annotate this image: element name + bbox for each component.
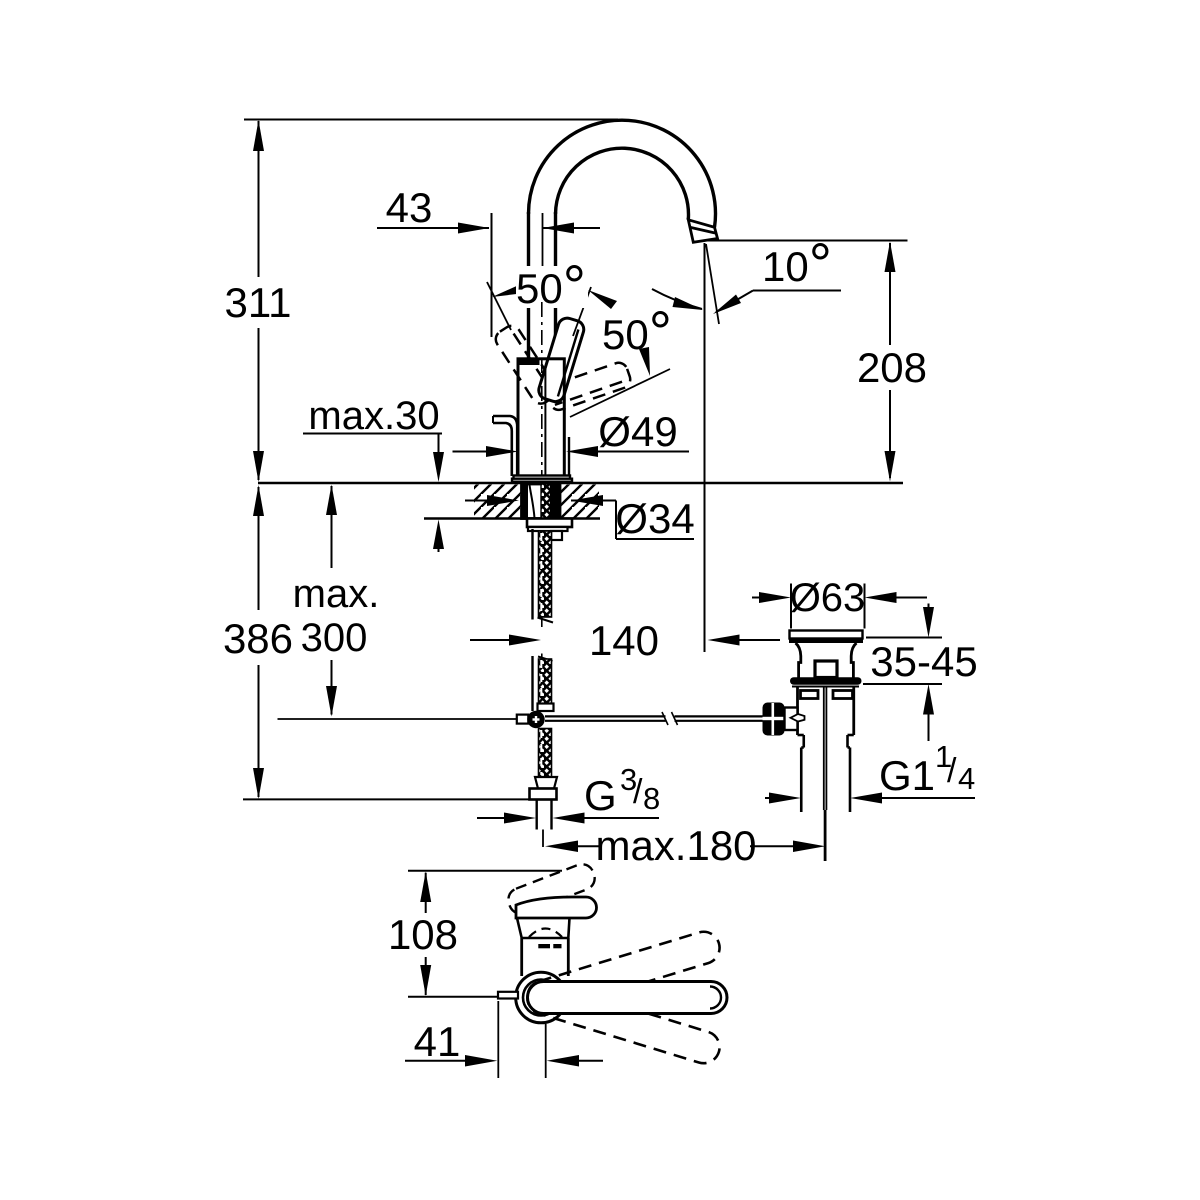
body inner edge <box>544 369 546 476</box>
plan view dashed swivelled spout <box>505 861 598 918</box>
horizontal pull rod <box>545 716 763 720</box>
hose nut G3/8 <box>530 789 557 800</box>
pull rod lower <box>531 656 533 711</box>
svg-text:G1: G1 <box>879 752 935 799</box>
pop-up overflow slots <box>801 691 819 699</box>
handle dashed right 50 deg position <box>545 360 633 412</box>
dimension 208 <box>889 243 891 478</box>
faucet body <box>518 359 564 477</box>
svg-text:300: 300 <box>301 616 368 660</box>
spout arch inner <box>556 148 689 220</box>
plan view dashed lever down <box>523 978 723 1067</box>
svg-text:43: 43 <box>386 184 433 231</box>
svg-text:35-45: 35-45 <box>870 638 977 685</box>
plan view top reference line <box>408 870 562 872</box>
reference line to tee <box>278 718 518 720</box>
spout tip aerator <box>688 220 717 243</box>
plan view spout <box>516 897 597 918</box>
svg-text:Ø34: Ø34 <box>615 495 694 542</box>
swivel arc arrow <box>652 289 702 309</box>
spout arch outer <box>528 120 715 227</box>
hose below tee <box>539 729 552 778</box>
angle leader line right <box>570 369 670 417</box>
dimension 108 <box>425 873 427 995</box>
svg-text:G: G <box>584 772 617 819</box>
countertop top line <box>258 482 903 485</box>
svg-text:8: 8 <box>643 781 660 816</box>
svg-text:max.180: max.180 <box>595 822 756 869</box>
rod tip <box>791 714 805 722</box>
hose break centreline <box>541 618 543 628</box>
svg-text:max.30: max.30 <box>308 394 439 438</box>
angle arrow A1 <box>492 284 525 297</box>
svg-text:max.: max. <box>293 572 380 616</box>
countertop bottom line <box>424 517 600 520</box>
angle leader line middle <box>573 287 591 336</box>
tee joint <box>527 711 544 728</box>
pop-up waste: dia63 extension lines <box>790 584 792 629</box>
tee joint block <box>517 715 529 724</box>
dimension dia 63 <box>752 597 760 599</box>
dimension 41 <box>497 1001 499 1078</box>
svg-text:140: 140 <box>589 617 659 664</box>
pop-up funnel <box>796 643 801 678</box>
svg-text:108: 108 <box>388 911 458 958</box>
extension line outlet centre vertical <box>704 243 706 652</box>
supply hose lower braided <box>538 657 553 662</box>
plan view bottom reference line <box>408 996 500 998</box>
connection pipe <box>536 800 538 830</box>
dimension G1 1/4 <box>765 797 772 799</box>
mounting shank <box>522 484 561 519</box>
dimension dia 49 <box>453 451 487 453</box>
pop-up waste cap <box>790 631 863 639</box>
clamp connector <box>785 708 798 731</box>
bottom reference line 386 <box>243 798 530 800</box>
dimension max.300 <box>331 486 333 715</box>
svg-text:41: 41 <box>414 1018 461 1065</box>
svg-text:208: 208 <box>857 344 927 391</box>
plan view dashed cartridge dome <box>529 929 562 938</box>
svg-text:Ø63: Ø63 <box>790 576 866 620</box>
spout riser pipe <box>529 212 556 359</box>
plan view body circles <box>516 972 567 1023</box>
svg-text:386: 386 <box>223 615 293 662</box>
handle dashed left 50 deg position <box>492 322 560 407</box>
angle arrow A3 <box>639 347 650 376</box>
svg-text:4: 4 <box>958 761 975 796</box>
countertop hatch <box>474 485 599 518</box>
plan view pull rod <box>498 992 518 999</box>
plan view lever <box>528 982 728 1014</box>
dimension 140 <box>470 639 512 641</box>
body bottom collar right <box>568 437 570 476</box>
plan view dashed lever up <box>523 928 723 1017</box>
mounting nut <box>527 519 572 528</box>
supply hose upper braided <box>539 531 552 617</box>
dimension dia 34 <box>465 500 487 502</box>
base plate <box>514 476 571 479</box>
body centreline <box>541 302 543 481</box>
clamp knob knurled <box>763 703 785 736</box>
svg-text:311: 311 <box>225 279 292 326</box>
svg-text:/: / <box>947 752 957 790</box>
handle lever solid <box>537 316 586 404</box>
extension line outlet level <box>706 240 908 242</box>
pop-up flange <box>790 677 862 685</box>
dimension max.180 <box>545 841 578 853</box>
water stream line 10 deg <box>706 244 719 324</box>
extension line 43 at pipe centre <box>542 213 544 266</box>
drain pipe <box>800 748 803 813</box>
pop-up pull rod knob <box>493 416 517 476</box>
dimension 386 <box>258 487 260 797</box>
pop-up vertical rod <box>823 686 825 810</box>
dimension 35-45 <box>866 637 942 639</box>
angle arrow A2 <box>588 290 617 309</box>
svg-text:/: / <box>633 773 643 811</box>
pull rod upper <box>531 529 533 620</box>
plan view body column <box>520 938 523 976</box>
pop-up body <box>796 687 799 736</box>
angle leader line left <box>487 282 511 330</box>
label 50 deg first <box>516 266 588 308</box>
dimension 43 <box>377 213 600 337</box>
hose end collar <box>535 777 557 789</box>
plan view body shoulders <box>517 918 522 938</box>
pop-up stem square <box>815 661 837 678</box>
dimension G3/8 <box>477 817 505 819</box>
body top dash <box>519 360 540 365</box>
dimension 311 <box>258 121 260 480</box>
svg-text:Ø49: Ø49 <box>598 408 677 455</box>
wire top reference line <box>244 119 618 121</box>
